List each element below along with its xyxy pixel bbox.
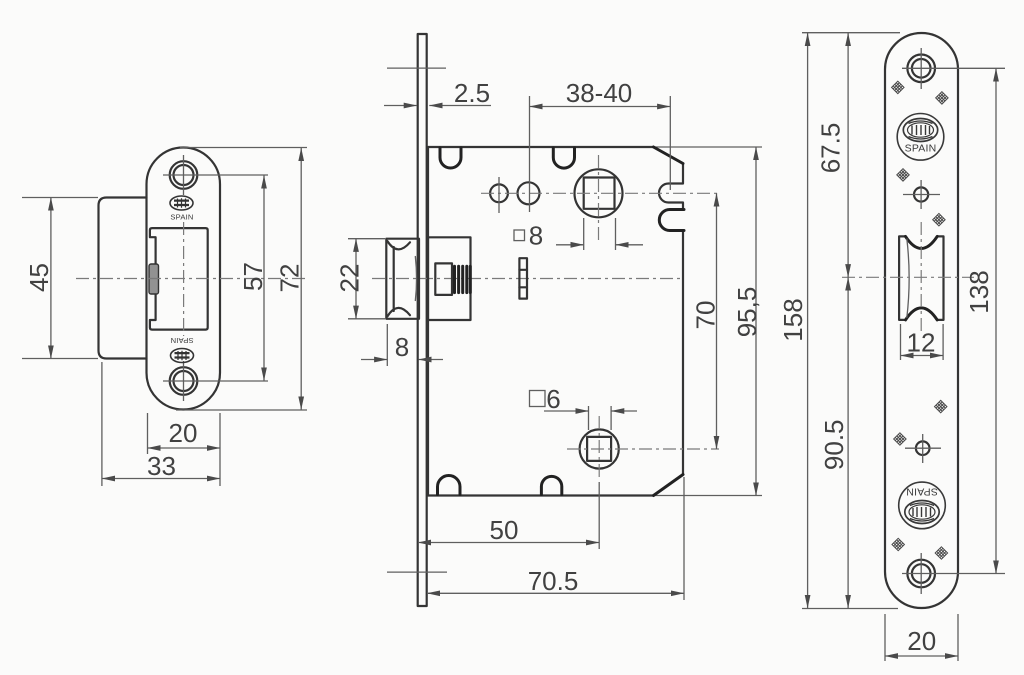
- svg-text:6: 6: [546, 384, 560, 414]
- svg-text:67.5: 67.5: [815, 123, 845, 174]
- svg-text:38-40: 38-40: [566, 78, 633, 108]
- svg-text:20: 20: [169, 418, 198, 448]
- svg-text:SPAIN: SPAIN: [906, 486, 938, 498]
- svg-text:45: 45: [24, 263, 54, 292]
- svg-text:72: 72: [275, 264, 305, 293]
- svg-text:20: 20: [907, 626, 936, 656]
- svg-text:SPAIN: SPAIN: [905, 143, 937, 155]
- svg-text:SPAIN: SPAIN: [170, 213, 193, 222]
- svg-text:8: 8: [529, 221, 543, 251]
- svg-text:SPAIN: SPAIN: [170, 336, 193, 345]
- svg-text:138: 138: [964, 270, 994, 313]
- svg-text:90.5: 90.5: [819, 419, 849, 470]
- svg-text:8: 8: [395, 332, 409, 362]
- svg-text:33: 33: [147, 451, 176, 481]
- svg-text:95,5: 95,5: [732, 287, 762, 338]
- svg-text:158: 158: [778, 298, 808, 341]
- svg-text:57: 57: [238, 262, 268, 291]
- svg-text:70: 70: [690, 301, 720, 330]
- svg-text:2.5: 2.5: [454, 78, 490, 108]
- svg-text:12: 12: [907, 328, 936, 358]
- svg-text:22: 22: [334, 264, 364, 293]
- svg-text:50: 50: [490, 515, 519, 545]
- svg-text:70.5: 70.5: [528, 566, 579, 596]
